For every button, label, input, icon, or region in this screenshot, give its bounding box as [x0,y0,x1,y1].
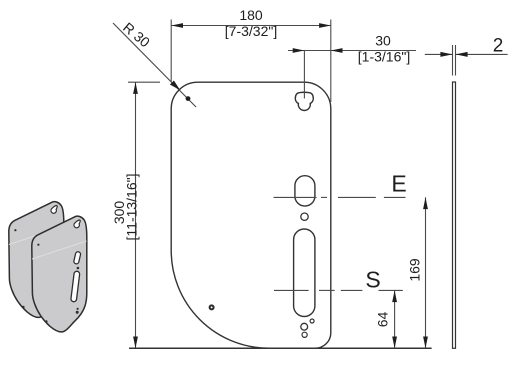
small circle under obround [301,213,308,220]
svg-text:30: 30 [375,33,391,49]
svg-text:[11-13/16"]: [11-13/16"] [124,174,140,241]
ext line top [128,81,160,83]
S line dashes [274,289,309,291]
plate outline [171,82,331,348]
back corner dot [14,229,16,231]
arrow 300 top [133,82,138,94]
arrow 64 top [392,290,397,302]
E line dashes [274,196,317,198]
ext line right [330,20,332,103]
svg-text:180: 180 [239,7,263,23]
arrow 30 right [331,48,343,53]
arrow 2 left [440,52,452,57]
leader arrowhead [170,81,180,91]
front plate (iso) [32,216,87,332]
arrow 30 left [293,48,305,53]
front rivet dot [45,320,47,322]
back keyhole [51,206,57,214]
svg-text:R 30: R 30 [120,19,153,50]
dim line 30 [288,50,331,52]
bottom small circle c [302,332,307,337]
keyhole hole (top) [295,92,313,110]
svg-text:64: 64 [375,312,391,328]
front corner dot [37,244,39,246]
svg-text:S: S [365,267,380,293]
dim line 169 [425,197,427,348]
large slot hole [294,229,315,317]
ext line left of 2-dim [452,45,454,76]
front bottom dots [77,308,79,310]
back plate crease [9,227,64,245]
dim line 180 [171,25,331,27]
svg-text:E: E [391,171,406,197]
arrow 180 left [171,23,183,28]
svg-text:[7-3/32"]: [7-3/32"] [225,23,277,39]
centerline of keyhole [303,51,305,99]
leader line R30 [113,23,196,107]
svg-text:2: 2 [493,36,504,57]
dim line 2 left tail [425,53,453,55]
leader dot [186,96,191,101]
arrow 169 bottom [423,337,428,349]
back plate (iso) [9,202,64,318]
front upper obround hole [73,251,81,264]
arrow 2 right [456,52,468,57]
arrow 180 right [319,23,331,28]
arrow 64 bottom [392,337,397,349]
arrow 169 top [423,197,428,209]
svg-text:[1-3/16"]: [1-3/16"] [358,49,410,65]
arrow 300 bottom [133,337,138,349]
front plate crease [32,241,87,259]
dim line 64 [394,290,396,348]
side view plate profile [453,82,456,348]
ext line left [170,20,172,83]
bottom small circle a [310,319,314,323]
upper obround hole [295,176,315,206]
front slot hole [71,271,80,302]
front small dot under obround [77,267,80,270]
back rivet dot [22,306,24,308]
svg-text:169: 169 [407,258,423,282]
bottom small circle b [301,323,308,330]
dim line 300 [135,82,137,348]
dim line 2 right tail [456,53,508,55]
front keyhole [74,220,80,228]
rivet dot on plate [210,305,214,309]
